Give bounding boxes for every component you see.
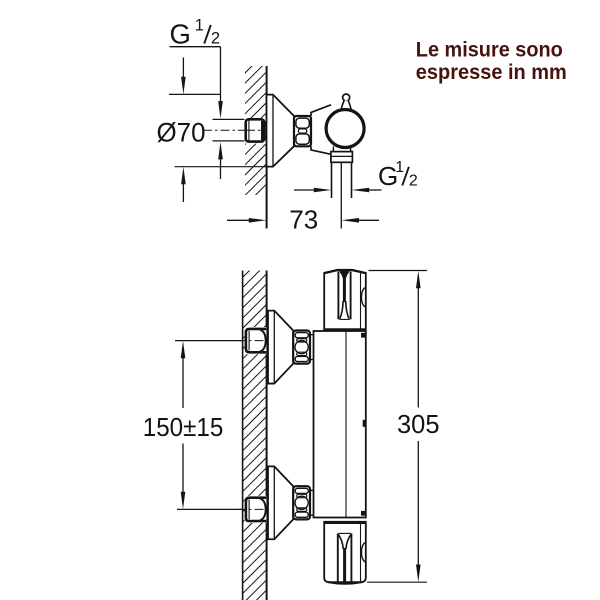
svg-text:espresse in mm: espresse in mm [416, 61, 567, 84]
svg-text:G: G [170, 18, 191, 49]
svg-text:2: 2 [409, 173, 418, 190]
svg-text:305: 305 [397, 409, 440, 439]
svg-text:73: 73 [289, 205, 318, 235]
svg-text:Ø70: Ø70 [157, 118, 206, 148]
svg-text:150±15: 150±15 [143, 412, 224, 442]
svg-text:1: 1 [395, 159, 404, 176]
svg-text:2: 2 [211, 30, 220, 48]
svg-text:1: 1 [195, 16, 204, 34]
svg-text:Le misure sono: Le misure sono [416, 38, 563, 61]
